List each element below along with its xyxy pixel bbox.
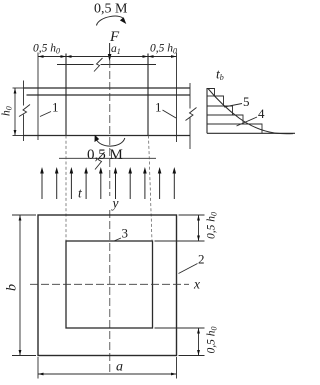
centre axis line (plan) xyxy=(109,210,111,374)
moment arc bottom (counterclockwise) xyxy=(96,138,125,146)
svg-text:h0: h0 xyxy=(1,106,14,116)
svg-text:2: 2 xyxy=(198,252,205,267)
projection line right column face to plan xyxy=(149,136,153,242)
soil pressure arrows t xyxy=(40,167,176,199)
svg-text:0,5 h0: 0,5 h0 xyxy=(150,43,177,56)
force F arrow xyxy=(109,43,111,54)
svg-text:y: y xyxy=(111,196,119,211)
slab second line xyxy=(27,94,191,96)
tb diagram axis xyxy=(206,88,208,133)
tb curve xyxy=(208,89,293,134)
projection line left column face to plan xyxy=(65,136,67,242)
h0 dimension (left) xyxy=(13,87,25,89)
svg-text:4: 4 xyxy=(258,106,265,121)
svg-text:0,5 h0: 0,5 h0 xyxy=(206,212,219,239)
moment arc top (clockwise) xyxy=(97,16,125,25)
svg-text:t: t xyxy=(78,186,83,201)
plan x axis dashed xyxy=(30,283,189,285)
svg-text:b: b xyxy=(5,284,20,291)
tb steps xyxy=(207,89,262,134)
svg-text:a: a xyxy=(116,360,123,375)
plan outer square (critical contour 2) xyxy=(38,215,177,356)
tb diagram baseline xyxy=(207,132,295,134)
left dimension b xyxy=(12,214,36,216)
svg-text:0,5 h0: 0,5 h0 xyxy=(206,327,219,354)
centre axis line (elevation) xyxy=(109,60,111,196)
svg-text:3: 3 xyxy=(122,226,129,241)
svg-text:tb: tb xyxy=(216,67,224,83)
slab cut line right with break xyxy=(189,83,191,109)
reference line under 0,5 M xyxy=(59,157,156,159)
svg-text:x: x xyxy=(193,277,200,292)
svg-text:0,5 М: 0,5 М xyxy=(87,147,123,163)
svg-text:1: 1 xyxy=(52,100,59,115)
svg-text:1: 1 xyxy=(155,100,162,115)
break mark on reference line xyxy=(95,152,105,170)
column left face xyxy=(65,54,67,136)
svg-text:5: 5 xyxy=(243,94,250,109)
plan inner square (column 3) xyxy=(66,241,153,328)
bottom dimension a xyxy=(37,357,39,379)
slab bottom surface xyxy=(24,135,190,137)
slab top surface xyxy=(24,87,190,89)
right dimension 0,5h0 bottom xyxy=(155,327,205,329)
extension line x=38 (critical section left) xyxy=(37,53,39,141)
svg-text:a1: a1 xyxy=(111,43,121,56)
extension line x=176 (critical section right) xyxy=(176,53,178,143)
slab cut line left with break xyxy=(23,81,25,106)
svg-text:0,5 h0: 0,5 h0 xyxy=(33,43,60,56)
right dimension 0,5h0 top xyxy=(179,214,205,216)
column right face xyxy=(147,54,149,136)
column cut line with break xyxy=(57,64,94,66)
svg-text:0,5 М: 0,5 М xyxy=(94,2,128,17)
dimension line top (y=56) xyxy=(38,56,177,58)
